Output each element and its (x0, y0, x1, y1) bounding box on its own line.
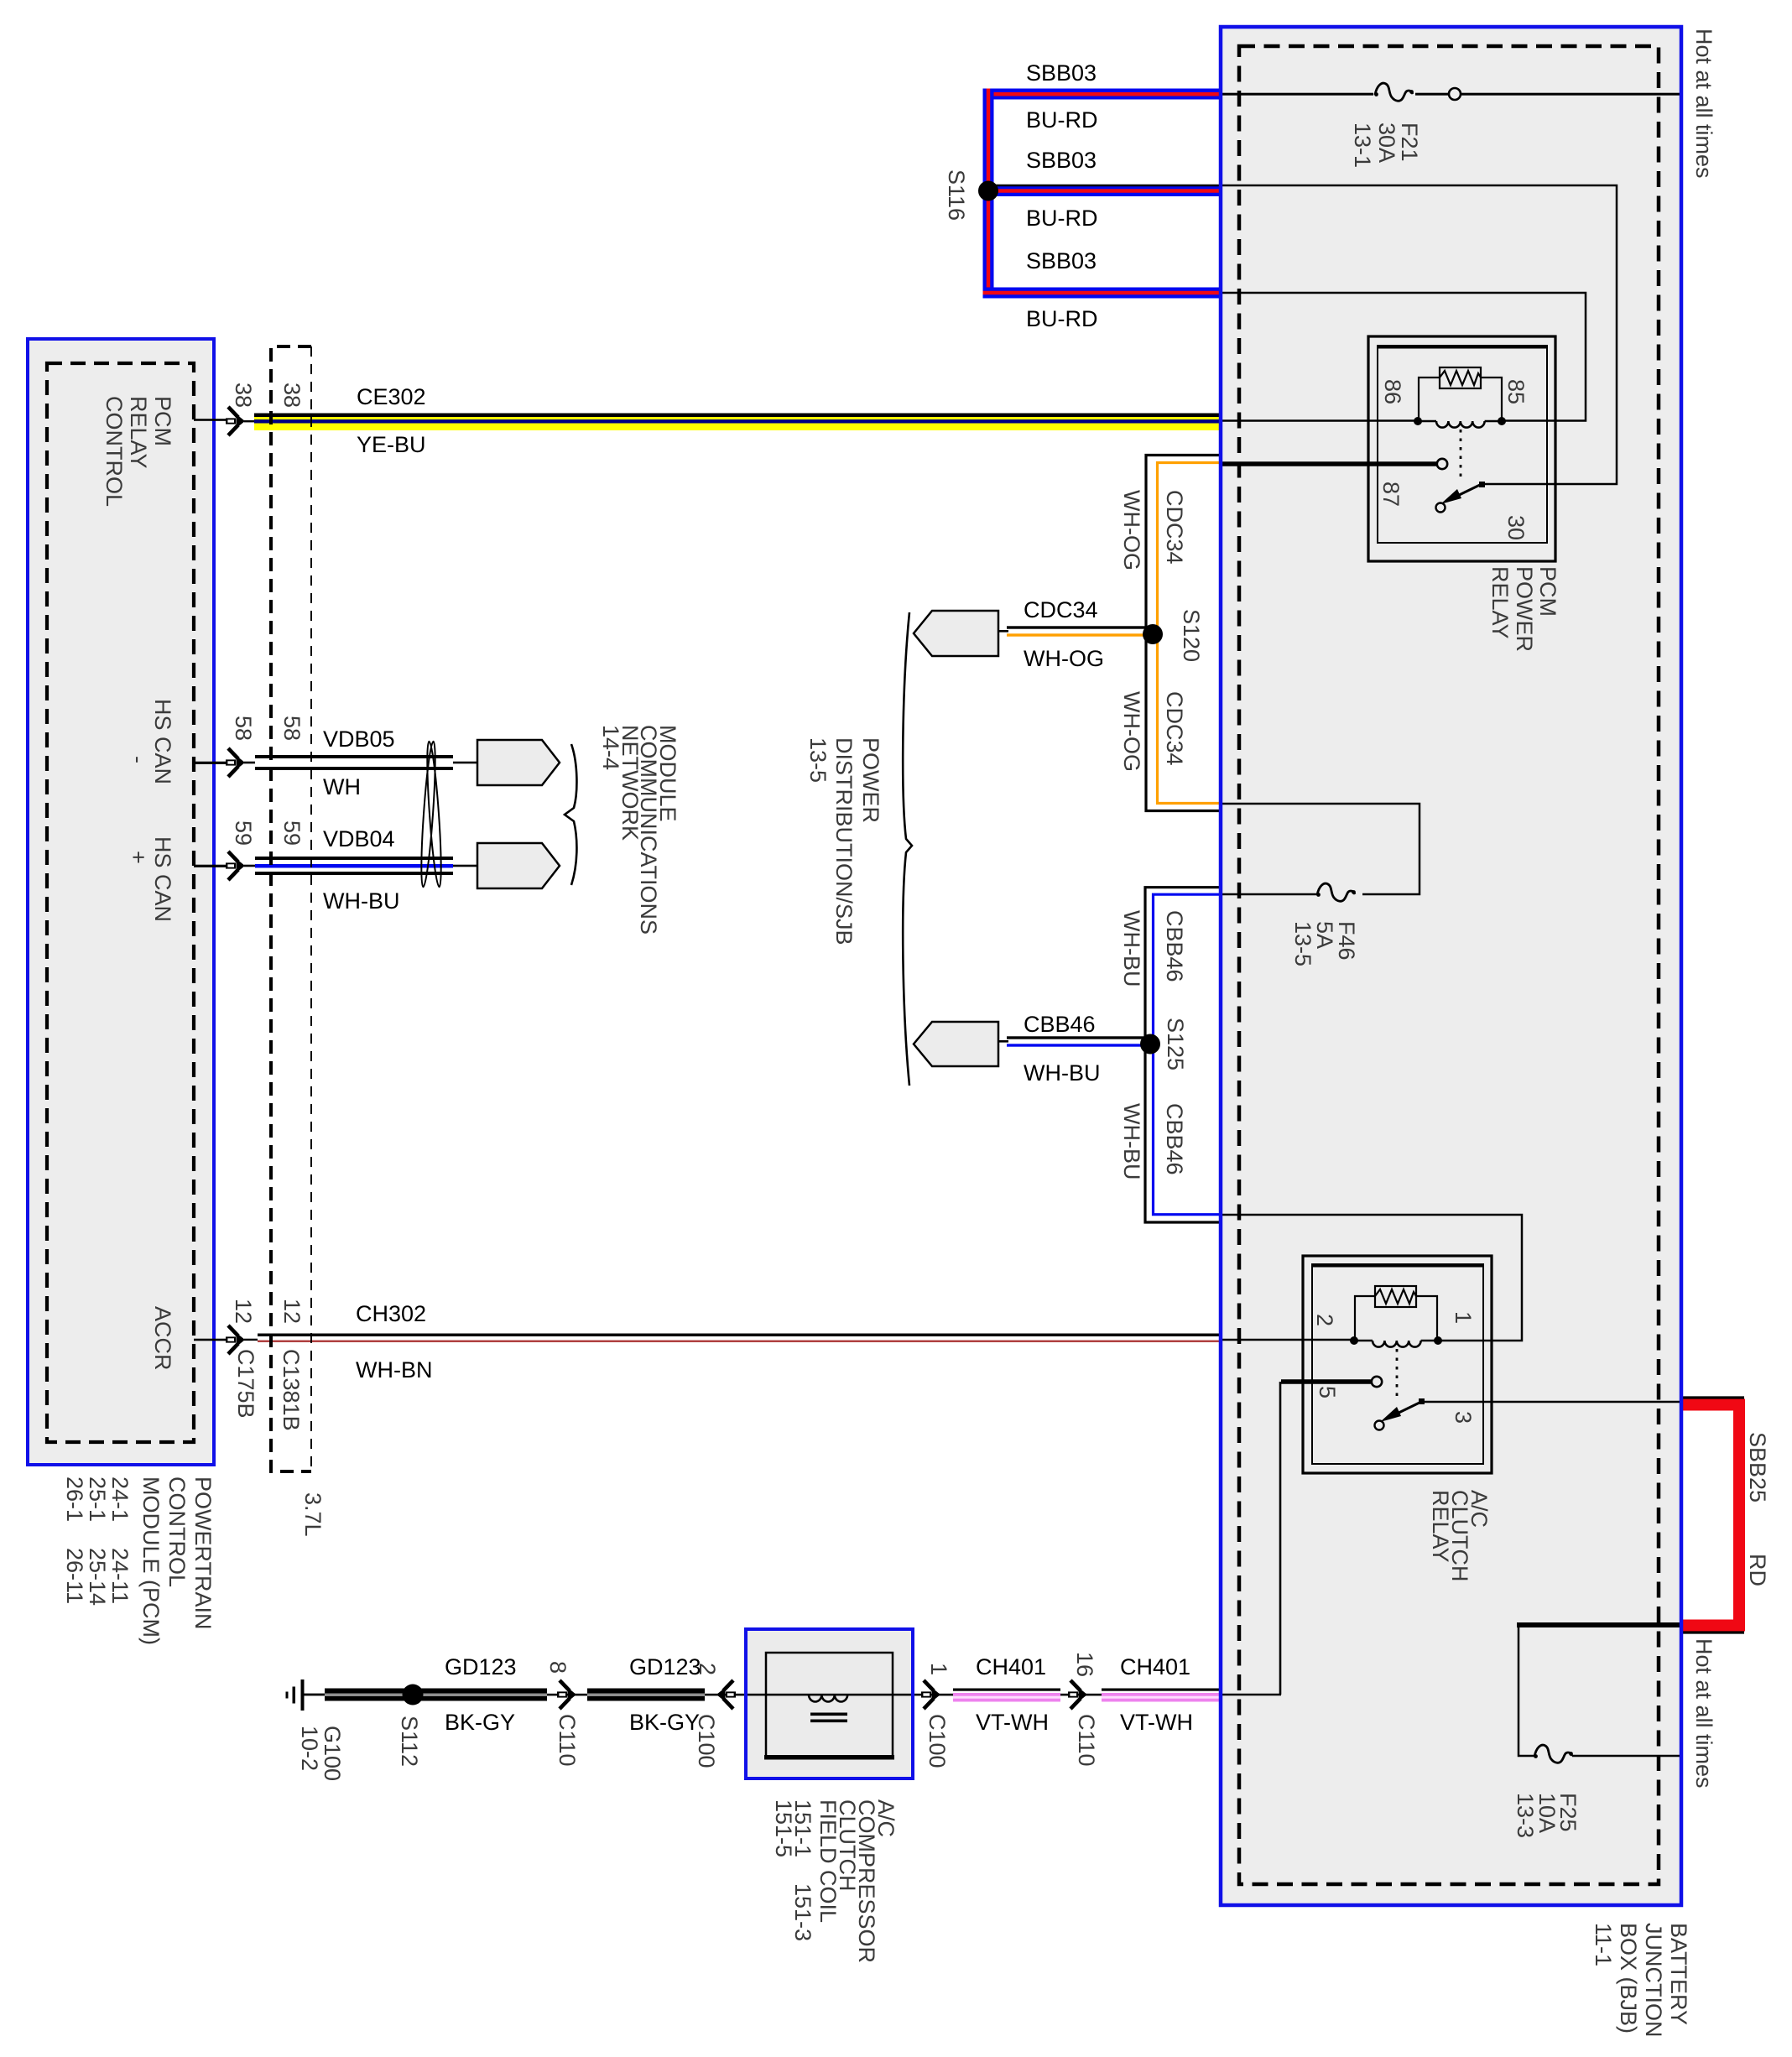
power distribution connector (CBB46) (914, 1022, 998, 1066)
svg-text:S125: S125 (1163, 1018, 1188, 1070)
A/C clutch relay pin 5 contact (1372, 1377, 1382, 1387)
A/C clutch relay switch arm pin 3 (1375, 1398, 1425, 1430)
svg-text:YE-BU: YE-BU (357, 432, 426, 457)
wire from SBB03 to fuse F21 (1221, 93, 1373, 96)
PCM pin 38 stub and arrow (194, 407, 254, 435)
svg-text:WH-BU: WH-BU (323, 888, 399, 914)
PCM power relay outer box (1368, 336, 1555, 561)
svg-text:S120: S120 (1179, 609, 1204, 662)
A/C clutch relay inner box (1312, 1264, 1483, 1464)
svg-text:C110: C110 (555, 1714, 580, 1767)
power distribution connector (CDC34) (914, 611, 998, 656)
svg-text:BATTERY: BATTERY (1666, 1923, 1691, 2025)
A/C clutch relay armature dashed link (1396, 1349, 1399, 1398)
svg-text:ACCR: ACCR (150, 1306, 175, 1371)
svg-text:87: 87 (1378, 482, 1404, 507)
wire A/C clutch relay pin 3 to SBB25 (1425, 1401, 1681, 1403)
svg-text:DISTRIBUTION/SJB: DISTRIBUTION/SJB (831, 737, 857, 945)
svg-text:25-1: 25-1 (85, 1476, 110, 1522)
wire SBB03 BU-RD segment 1 (to F21) (983, 89, 1222, 100)
A/C compressor clutch field coil blue border (746, 1629, 913, 1778)
ground G100 symbol (286, 1679, 326, 1711)
svg-text:CBB46: CBB46 (1162, 910, 1187, 982)
svg-text:13-5: 13-5 (805, 737, 831, 783)
svg-text:SBB03: SBB03 (1026, 148, 1097, 173)
svg-text:CBB46: CBB46 (1024, 1012, 1096, 1037)
svg-text:11-1: 11-1 (1591, 1923, 1616, 1966)
svg-text:VDB04: VDB04 (323, 826, 395, 851)
wire CDC34 lower to F46 (1221, 804, 1420, 894)
svg-text:RELAY: RELAY (1487, 566, 1513, 639)
wire SBB03 BU-RD vertical bundle at S116 (983, 89, 994, 299)
wire SBB03 to PCM power relay pin 85 (1221, 293, 1586, 421)
svg-text:BK-GY: BK-GY (629, 1710, 700, 1735)
svg-text:C175B: C175B (233, 1349, 258, 1419)
svg-text:CH302: CH302 (356, 1301, 426, 1326)
svg-text:HS CAN: HS CAN (150, 699, 175, 784)
A/C compressor clutch field coil inner box (764, 1653, 894, 1760)
PCM power relay resistor (1440, 367, 1481, 388)
svg-text:13-5: 13-5 (1290, 921, 1315, 966)
svg-text:SBB25: SBB25 (1745, 1432, 1770, 1502)
svg-text:POWER: POWER (1512, 566, 1537, 652)
battery junction box blue border (1221, 27, 1681, 1905)
inline connector 8 C110 (547, 1680, 587, 1709)
PCM blue border (28, 339, 214, 1465)
svg-text:MODULE (PCM): MODULE (PCM) (138, 1476, 164, 1645)
svg-text:POWERTRAIN: POWERTRAIN (190, 1476, 216, 1630)
svg-text:BU-RD: BU-RD (1026, 206, 1098, 231)
svg-text:26-11: 26-11 (62, 1548, 87, 1604)
svg-text:RELAY: RELAY (126, 396, 151, 469)
svg-text:30A: 30A (1374, 122, 1399, 163)
wire A/C clutch relay pin 5 to CH401 (1281, 1379, 1373, 1384)
svg-text:F21: F21 (1397, 122, 1422, 162)
svg-text:10-2: 10-2 (297, 1726, 322, 1771)
splice S112 junction dot (403, 1685, 424, 1705)
brace for module communications network (565, 744, 576, 885)
PCM power relay resistor leads (1419, 378, 1440, 418)
svg-text:GD123: GD123 (629, 1654, 701, 1679)
svg-text:12: 12 (279, 1299, 305, 1324)
PCM power relay inner box (1378, 346, 1547, 543)
svg-text:CH401: CH401 (1120, 1654, 1190, 1679)
svg-text:POWER: POWER (858, 737, 883, 823)
battery junction box inner dashed border (1239, 46, 1659, 1884)
wire CBB46 to A/C clutch relay pin 1 (1221, 1215, 1522, 1341)
svg-text:WH-OG: WH-OG (1024, 646, 1104, 671)
wire CH302 WH-BN from PCM pin 12 (ACCR) to A/C clutch relay pin 2 (258, 1334, 1221, 1343)
svg-text:CDC34: CDC34 (1162, 691, 1187, 766)
svg-text:58: 58 (231, 716, 256, 741)
splice S120 junction dot (1143, 624, 1163, 644)
svg-text:30: 30 (1503, 515, 1529, 540)
svg-text:5: 5 (1315, 1386, 1340, 1398)
svg-text:WH-OG: WH-OG (1119, 490, 1144, 570)
PCM power relay coil pins 86-85 (1418, 421, 1502, 428)
svg-text:3: 3 (1451, 1411, 1476, 1424)
wire from fuse F21 to right bus (1461, 93, 1681, 96)
battery junction box body (1221, 27, 1681, 1905)
svg-text:BU-RD: BU-RD (1026, 107, 1098, 133)
wire SBB25 RD loop outside BJB right edge (1681, 1398, 1744, 1633)
splice S125 junction dot (1140, 1034, 1160, 1055)
svg-text:13-3: 13-3 (1513, 1793, 1538, 1838)
splice S116 junction dot (978, 181, 998, 201)
svg-text:Hot at all times: Hot at all times (1691, 1638, 1716, 1789)
A/C clutch relay resistor leads (1355, 1296, 1375, 1337)
svg-text:WH-BU: WH-BU (1119, 910, 1144, 987)
wire GD123 BK-GY segment 2 (C110 to C100) (587, 1689, 705, 1701)
svg-text:13-1: 13-1 (1350, 122, 1375, 168)
wire CH401 VT-WH segment 2 (C110 to BJB) (1102, 1689, 1221, 1702)
svg-text:151-3: 151-3 (790, 1883, 815, 1941)
svg-text:CONTROL: CONTROL (164, 1476, 190, 1587)
svg-text:1: 1 (1451, 1311, 1476, 1324)
svg-text:26-1: 26-1 (62, 1476, 87, 1522)
svg-text:GD123: GD123 (445, 1654, 517, 1679)
PCM inner dashed border (47, 363, 194, 1442)
powertrain control module (PCM) body (28, 339, 214, 1465)
svg-text:C100: C100 (925, 1714, 950, 1768)
svg-text:VT-WH: VT-WH (1120, 1710, 1193, 1735)
wire CE302 YE-BU from PCM pin 38 to relay pin 86 (254, 414, 1221, 431)
inline connector 1 C100 (893, 1680, 953, 1709)
svg-text:JUNCTION: JUNCTION (1641, 1923, 1666, 2038)
wire CDC34 to PCM power relay pin 87 (1221, 461, 1436, 466)
svg-text:CDC34: CDC34 (1162, 490, 1187, 565)
svg-text:38: 38 (279, 383, 305, 408)
fuse F21 30A 13-1 (1374, 83, 1414, 101)
svg-text:BOX (BJB): BOX (BJB) (1616, 1923, 1641, 2034)
svg-text:85: 85 (1503, 379, 1529, 404)
wire CBB46 WH-BU U-loop (F46 to A/C clutch relay pin 1) (1145, 888, 1221, 1222)
svg-text:BK-GY: BK-GY (445, 1710, 515, 1735)
wire S116 to PCM power relay pin 30 (988, 185, 1617, 484)
PCM power relay armature dashed link (1460, 430, 1462, 481)
PCM power relay switch arm pin 30 (1436, 482, 1486, 513)
svg-text:38: 38 (231, 383, 256, 408)
fuse F46 5A 13-5 (1316, 883, 1356, 901)
svg-text:58: 58 (279, 716, 305, 741)
svg-text:12: 12 (231, 1299, 256, 1324)
svg-text:8: 8 (545, 1661, 570, 1674)
svg-text:SBB03: SBB03 (1026, 248, 1097, 273)
wire GD123 BK-GY segment 1 (ground to S112 to C110) (325, 1689, 547, 1701)
svg-text:16: 16 (1072, 1652, 1097, 1677)
svg-text:SBB03: SBB03 (1026, 60, 1097, 86)
wire VDB04 WH-BU (HS CAN +) tube (255, 857, 478, 875)
svg-text:PCM: PCM (1535, 566, 1560, 617)
svg-text:C110: C110 (1074, 1714, 1099, 1767)
svg-text:24-1: 24-1 (107, 1476, 133, 1522)
svg-text:BU-RD: BU-RD (1026, 306, 1098, 331)
svg-text:+: + (126, 851, 151, 864)
svg-text:C100: C100 (694, 1714, 719, 1768)
PCM power relay pin 87 contact (1437, 459, 1447, 469)
svg-text:1: 1 (926, 1663, 951, 1675)
svg-text:59: 59 (279, 820, 305, 846)
svg-text:WH-BU: WH-BU (1119, 1103, 1144, 1180)
PCM pin 12 stub and arrow (194, 1325, 258, 1354)
svg-text:2: 2 (695, 1663, 720, 1675)
PCM pin 59 stub and arrow (194, 851, 255, 880)
brace for power distribution/SJB (903, 612, 912, 1086)
inline connector 16 C110 (1060, 1680, 1102, 1709)
A/C clutch relay resistor (1375, 1286, 1416, 1307)
svg-text:CDC34: CDC34 (1024, 597, 1098, 622)
svg-text:C1381B: C1381B (279, 1349, 304, 1431)
wire CH302 to A/C clutch relay pin 2 (1221, 1339, 1353, 1341)
wire SBB03 BU-RD segment 3 (to PCM power relay pin 85) (983, 288, 1222, 299)
svg-text:14-4: 14-4 (598, 725, 623, 770)
module communications network connector (VDB05) (477, 740, 560, 785)
svg-text:24-11: 24-11 (107, 1548, 133, 1604)
A/C compressor clutch field coil wire and coil (766, 1694, 893, 1722)
svg-text:PCM: PCM (150, 396, 175, 446)
svg-text:HS CAN: HS CAN (150, 836, 175, 922)
wire CH401 VT-WH segment 1 (C100 to C110) (953, 1689, 1060, 1702)
svg-text:WH-BN: WH-BN (356, 1357, 432, 1383)
svg-text:86: 86 (1380, 379, 1405, 404)
svg-text:59: 59 (231, 820, 256, 846)
wire SBB25 return to fuse F25 (1517, 1622, 1681, 1627)
svg-text:VDB05: VDB05 (323, 726, 395, 752)
inline connector 2 C100 (705, 1680, 766, 1709)
svg-text:CH401: CH401 (976, 1654, 1046, 1679)
svg-text:RD: RD (1745, 1554, 1770, 1586)
module communications network connector (VDB04) (477, 843, 560, 888)
svg-text:CBB46: CBB46 (1162, 1103, 1187, 1175)
svg-text:151-5: 151-5 (771, 1799, 796, 1857)
wire VDB05 WH (HS CAN -) tube (255, 755, 478, 770)
A/C compressor clutch field coil body (746, 1629, 913, 1778)
svg-text:WH: WH (323, 774, 361, 799)
svg-text:CONTROL: CONTROL (102, 396, 127, 507)
wire CDC34 WH-OG U-loop (relay pin 87 to F46) (1146, 456, 1221, 811)
twisted pair symbol (419, 741, 444, 887)
svg-text:Hot at all times: Hot at all times (1691, 29, 1716, 179)
wire SBB03 BU-RD segment 2 (to PCM power relay pin 30) (987, 185, 1221, 196)
svg-text:S116: S116 (944, 169, 969, 221)
A/C clutch relay outer box (1303, 1256, 1492, 1473)
wire CBB46 WH-BU stub to power distribution connector (997, 1036, 1152, 1046)
svg-text:25-14: 25-14 (85, 1548, 110, 1606)
svg-text:WH-BU: WH-BU (1024, 1060, 1100, 1086)
svg-text:CE302: CE302 (357, 384, 426, 409)
svg-text:-: - (126, 756, 151, 763)
wire CE302 to PCM power relay pin 86 (1221, 419, 1418, 422)
fuse F25 10A 13-3 (1534, 1745, 1573, 1763)
svg-text:3.7L: 3.7L (300, 1492, 326, 1537)
svg-text:S112: S112 (397, 1716, 422, 1767)
wire CDC34 WH-OG stub to power distribution connector (997, 626, 1156, 636)
A/C clutch relay coil pins 2-1 (1354, 1341, 1438, 1347)
svg-text:2: 2 (1312, 1314, 1337, 1326)
connector C1381B dashed outline (271, 346, 311, 1471)
svg-text:WH-OG: WH-OG (1119, 691, 1144, 772)
svg-text:G100: G100 (320, 1726, 345, 1781)
svg-text:FIELD COIL: FIELD COIL (815, 1799, 841, 1923)
svg-text:VT-WH: VT-WH (976, 1710, 1049, 1735)
svg-text:RELAY: RELAY (1428, 1490, 1453, 1563)
PCM pin 58 stub and arrow (194, 748, 255, 777)
